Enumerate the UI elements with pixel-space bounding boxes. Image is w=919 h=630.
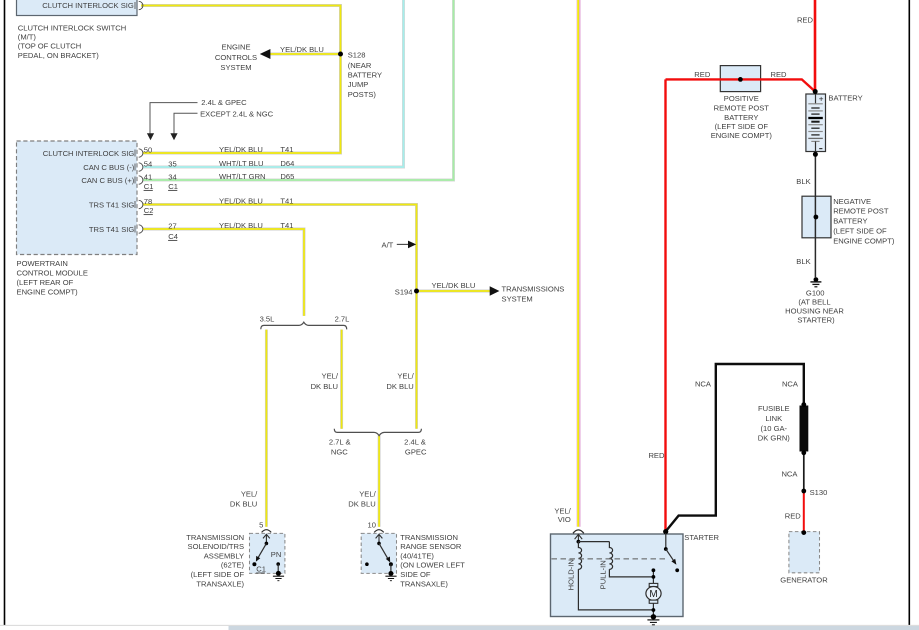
pin connector arc PCM pin 50 <box>135 149 143 157</box>
svg-text:ENGINE COMPT): ENGINE COMPT) <box>17 288 79 297</box>
G100 ground symbol <box>810 277 821 287</box>
svg-text:STARTER): STARTER) <box>797 316 835 325</box>
label YEL/VIO <box>554 506 571 523</box>
PCM pin numbers column 1 <box>144 145 152 206</box>
wire YEL/DK BLU PCM pin 78 to S194 down to brace <box>143 205 417 429</box>
frame right border line <box>908 0 910 625</box>
svg-text:C2: C2 <box>144 206 154 215</box>
starter motor branch stub <box>652 570 654 583</box>
svg-text:78: 78 <box>144 197 152 206</box>
svg-text:M: M <box>649 589 657 600</box>
hold-in coil <box>578 542 581 570</box>
svg-text:CAN C BUS (-): CAN C BUS (-) <box>83 163 135 172</box>
svg-text:TRS T41 SIG: TRS T41 SIG <box>89 225 135 234</box>
svg-text:(LEFT SIDE OF: (LEFT SIDE OF <box>715 122 769 131</box>
caption transmission range sensor <box>400 533 465 589</box>
trans solenoid entry connector arc <box>262 530 272 533</box>
svg-text:(TOP OF CLUTCH: (TOP OF CLUTCH <box>18 42 81 51</box>
caption G100 <box>785 288 844 324</box>
svg-text:(M/T): (M/T) <box>18 33 37 42</box>
svg-text:STARTER: STARTER <box>684 533 719 542</box>
brace 2.7L&NGC / 2.4L&GPEC merge <box>334 429 421 436</box>
svg-text:ENGINE COMPT): ENGINE COMPT) <box>833 236 895 245</box>
trans solenoid wiper with arrowhead <box>256 543 267 561</box>
svg-text:T41: T41 <box>280 221 293 230</box>
svg-text:T41: T41 <box>280 197 293 206</box>
wire YEL/VIO down to starter <box>577 0 580 527</box>
wire PN contact to ground <box>277 564 279 573</box>
svg-text:POWERTRAIN: POWERTRAIN <box>17 259 68 268</box>
svg-text:LINK: LINK <box>765 414 782 423</box>
wire RED top to battery <box>814 0 817 91</box>
svg-text:CONTROLS: CONTROLS <box>215 53 257 62</box>
svg-text:HOLD-IN: HOLD-IN <box>566 559 575 590</box>
svg-text:YEL/DK BLU: YEL/DK BLU <box>219 197 263 206</box>
svg-text:RED: RED <box>785 512 802 521</box>
PCM pin numbers column 2 <box>168 159 176 230</box>
trans range sensor wiper end dot <box>389 562 393 566</box>
svg-text:EXCEPT 2.4L & NGC: EXCEPT 2.4L & NGC <box>200 109 274 118</box>
trans range sensor top dot <box>377 542 381 546</box>
junction dot starter battery terminal <box>663 529 668 534</box>
svg-text:54: 54 <box>144 159 152 168</box>
svg-text:CLUTCH INTERLOCK SIG: CLUTCH INTERLOCK SIG <box>42 1 134 10</box>
svg-text:(LEFT SIDE OF: (LEFT SIDE OF <box>191 570 245 579</box>
svg-text:SOLENOID/TRS: SOLENOID/TRS <box>188 542 245 551</box>
starter box <box>551 534 684 617</box>
starter hold-in node dot <box>577 540 581 544</box>
trans range sensor entry connector arc <box>374 530 384 533</box>
svg-text:DK GRN): DK GRN) <box>758 434 791 443</box>
svg-text:CONTROL MODULE: CONTROL MODULE <box>17 269 88 278</box>
pin connector arc PCM pin 27 <box>135 225 143 233</box>
PCM pin name labels <box>43 149 135 234</box>
starter entry connector arc <box>573 530 584 533</box>
starter switch wiper with arrowhead <box>666 549 677 565</box>
trans range sensor left contact dot <box>365 562 369 566</box>
svg-text:G100: G100 <box>806 288 825 297</box>
svg-text:3.5L: 3.5L <box>260 315 275 324</box>
svg-text:2.4L & GPEC: 2.4L & GPEC <box>201 98 247 107</box>
trans solenoid wiper end dot <box>252 562 256 566</box>
svg-text:YEL/: YEL/ <box>241 490 258 499</box>
trans solenoid entry arrow up <box>263 534 270 543</box>
wire YEL/DK BLU S194 branch to transmissions system <box>417 290 491 293</box>
pin connector arc PCM pin 54 <box>135 163 143 171</box>
battery internal plates and terminals <box>808 94 824 152</box>
wire YEL/DK BLU PCM pin 27 down to 3.5L/2.7L brace <box>143 229 304 316</box>
svg-text:41: 41 <box>144 172 152 181</box>
svg-text:TRANSAXLE): TRANSAXLE) <box>196 579 244 588</box>
svg-text:2.7L &: 2.7L & <box>329 437 351 446</box>
svg-text:WHT/LT GRN: WHT/LT GRN <box>219 172 266 181</box>
starter case dashed line <box>552 558 668 560</box>
svg-text:ASSEMBLY: ASSEMBLY <box>204 551 244 560</box>
svg-text:+: + <box>819 94 824 103</box>
transmission range sensor box <box>361 533 396 573</box>
label YEL/DK BLU left drop <box>311 371 339 391</box>
connector label C2 <box>144 206 154 215</box>
svg-text:5: 5 <box>259 521 263 530</box>
svg-text:S130: S130 <box>810 488 828 497</box>
frame left border line <box>4 0 6 625</box>
svg-text:SYSTEM: SYSTEM <box>220 63 251 72</box>
svg-text:VIO: VIO <box>558 515 571 524</box>
svg-text:NCA: NCA <box>781 469 798 478</box>
svg-text:POSITIVE: POSITIVE <box>724 94 759 103</box>
wire YEL/DK BLU clutch switch to S128 to PCM pin 50 <box>141 6 341 154</box>
svg-text:NEGATIVE: NEGATIVE <box>833 197 871 206</box>
svg-text:2.4L &: 2.4L & <box>404 437 426 446</box>
caption positive remote post battery <box>711 94 773 140</box>
svg-text:YEL/: YEL/ <box>359 490 376 499</box>
wire YEL/DK BLU S128 branch to engine controls system <box>270 53 341 56</box>
svg-text:TRANSMISSIONS: TRANSMISSIONS <box>502 284 565 293</box>
trans range sensor wiper with arrowhead <box>379 543 390 562</box>
svg-text:D64: D64 <box>280 159 294 168</box>
wire motor to starter ground <box>652 603 654 617</box>
svg-text:2.7L: 2.7L <box>335 315 350 324</box>
svg-text:YEL/: YEL/ <box>322 371 339 380</box>
svg-text:RANGE SENSOR: RANGE SENSOR <box>400 542 462 551</box>
svg-text:C1: C1 <box>144 182 154 191</box>
brace 3.5L / 2.7L split <box>261 322 347 329</box>
junction dot battery positive <box>813 89 818 94</box>
svg-text:RED: RED <box>648 451 665 460</box>
svg-text:HOUSING NEAR: HOUSING NEAR <box>785 307 844 316</box>
svg-text:CLUTCH INTERLOCK SIG: CLUTCH INTERLOCK SIG <box>43 149 135 158</box>
wire color labels PCM rows <box>219 145 266 230</box>
svg-text:C1: C1 <box>256 565 266 574</box>
powertrain control module box (PCM) <box>17 141 138 255</box>
label YEL/DK BLU right drop <box>386 371 414 391</box>
svg-text:ENGINE: ENGINE <box>221 42 250 51</box>
label YEL/DK BLU above solenoid <box>230 490 258 509</box>
starter entry arrow up <box>575 534 583 542</box>
svg-text:(LEFT REAR OF: (LEFT REAR OF <box>17 278 74 287</box>
svg-text:DK BLU: DK BLU <box>386 382 413 391</box>
circuit number labels PCM rows <box>280 145 294 230</box>
svg-text:YEL/DK BLU: YEL/DK BLU <box>432 281 476 290</box>
svg-text:JUMP: JUMP <box>348 80 369 89</box>
pin connector arc PCM pin 41 <box>135 176 143 184</box>
caption clutch interlock switch <box>18 23 126 60</box>
label S128 (near battery jump posts) <box>348 50 382 99</box>
svg-text:TRANSAXLE): TRANSAXLE) <box>400 579 448 588</box>
wire YEL/DK BLU 3.5L drop to transmission solenoid <box>265 330 268 527</box>
caption powertrain control module <box>17 259 88 297</box>
svg-text:S128: S128 <box>348 50 366 59</box>
svg-text:GPEC: GPEC <box>405 447 427 456</box>
label C1 solenoid <box>256 565 266 574</box>
scrollbar track <box>0 624 919 626</box>
wire WHT/LT BLU CAN C bus (-) <box>143 0 404 167</box>
starter motor branch upper dot <box>652 568 656 572</box>
svg-text:TRANSMISSION: TRANSMISSION <box>186 533 244 542</box>
wire pull-in coil to motor top node <box>609 569 651 577</box>
svg-text:PEDAL, ON BRACKET): PEDAL, ON BRACKET) <box>18 51 99 60</box>
svg-text:YEL/: YEL/ <box>397 371 414 380</box>
wire RED S130 to generator <box>803 491 805 532</box>
svg-text:REMOTE POST: REMOTE POST <box>833 207 889 216</box>
connector label C4 <box>168 232 178 241</box>
negative remote post battery box <box>802 196 831 238</box>
trans solenoid top dot <box>265 542 269 546</box>
svg-text:YEL/DK BLU: YEL/DK BLU <box>280 45 324 54</box>
annotation line 2.4L & GPEC <box>147 103 198 141</box>
node S194 <box>414 289 419 294</box>
arrowhead to engine controls system <box>260 49 271 59</box>
svg-text:POSTS): POSTS) <box>348 90 377 99</box>
svg-text:SYSTEM: SYSTEM <box>502 294 533 303</box>
starter motor branch lower dot <box>652 575 656 579</box>
transmission solenoid/TRS assembly box <box>250 533 285 573</box>
junction dot generator terminal <box>801 530 806 535</box>
svg-text:GENERATOR: GENERATOR <box>780 576 828 585</box>
svg-text:BATTERY: BATTERY <box>828 93 862 102</box>
svg-text:RED: RED <box>694 70 711 79</box>
fusible link (10 GA- DK GRN) <box>800 402 809 455</box>
starter switch pivot dot <box>664 547 668 551</box>
svg-text:(40/41TE): (40/41TE) <box>400 551 434 560</box>
svg-text:TRANSMISSION: TRANSMISSION <box>400 533 458 542</box>
label transmissions system <box>502 284 565 303</box>
svg-text:35: 35 <box>168 159 176 168</box>
caption transmission solenoid/TRS assembly <box>186 533 244 589</box>
caption negative remote post battery <box>833 197 895 246</box>
arrowhead to transmissions system <box>490 286 500 295</box>
svg-text:BATTERY: BATTERY <box>833 217 867 226</box>
svg-text:YEL/DK BLU: YEL/DK BLU <box>219 145 263 154</box>
junction dot battery negative <box>813 152 818 157</box>
svg-text:BATTERY: BATTERY <box>724 113 758 122</box>
trans solenoid ground symbol <box>273 571 284 581</box>
svg-text:D65: D65 <box>280 172 294 181</box>
svg-text:BATTERY: BATTERY <box>348 71 382 80</box>
starter switch lead <box>665 533 667 549</box>
wire RED positive post run to battery <box>666 79 816 91</box>
svg-text:(NEAR: (NEAR <box>348 61 372 70</box>
svg-text:YEL/DK BLU: YEL/DK BLU <box>219 221 263 230</box>
svg-text:T41: T41 <box>280 145 293 154</box>
svg-text:50: 50 <box>144 145 152 154</box>
svg-text:NGC: NGC <box>331 447 348 456</box>
trans solenoid PN contact dot <box>276 562 280 566</box>
svg-text:BLK: BLK <box>796 257 810 266</box>
annotation line EXCEPT 2.4L & NGC <box>170 113 197 140</box>
junction dot negative remote post <box>814 215 819 220</box>
label engine controls system <box>215 42 257 72</box>
svg-text:C1: C1 <box>168 182 178 191</box>
svg-text:WHT/LT BLU: WHT/LT BLU <box>219 159 263 168</box>
svg-text:(ON LOWER LEFT: (ON LOWER LEFT <box>400 561 465 570</box>
wire YEL/DK BLU 2.7L drop to merge brace <box>340 330 343 429</box>
wire WHT/LT GRN CAN C bus (+) <box>143 0 454 180</box>
node S130 <box>801 489 806 494</box>
wire NCA starter to fusible link <box>666 364 804 531</box>
wire BLK battery to G100 ground <box>814 154 816 277</box>
svg-text:FUSIBLE: FUSIBLE <box>758 404 790 413</box>
clutch interlock switch box S1 <box>17 0 138 16</box>
trans range sensor entry arrow up <box>376 534 383 543</box>
svg-text:BLK: BLK <box>796 177 810 186</box>
svg-text:27: 27 <box>168 221 176 230</box>
svg-text:34: 34 <box>168 172 176 181</box>
starter ground symbol <box>647 614 659 625</box>
junction dot positive remote post <box>738 77 743 82</box>
pull-in coil <box>609 542 612 570</box>
battery box <box>806 94 826 152</box>
svg-text:NCA: NCA <box>782 379 799 388</box>
svg-text:CAN C BUS (+): CAN C BUS (+) <box>81 176 134 185</box>
wire range sensor contact to ground <box>390 564 392 573</box>
generator box <box>789 532 820 573</box>
wire YEL/DK BLU merged drop to transmission range sensor <box>378 435 381 527</box>
svg-text:PN: PN <box>271 550 282 559</box>
svg-text:SIDE OF: SIDE OF <box>400 570 431 579</box>
caption fusible link <box>758 404 791 442</box>
wire hold-in coil to motor bottom rail <box>578 569 653 610</box>
svg-text:(LEFT SIDE OF: (LEFT SIDE OF <box>833 227 887 236</box>
svg-text:A/T: A/T <box>382 241 394 250</box>
starter motor M1 <box>646 583 661 603</box>
svg-text:(10 GA-: (10 GA- <box>761 424 788 433</box>
wire hold-in to pull-in link <box>578 541 609 543</box>
svg-text:RED: RED <box>771 70 788 79</box>
svg-text:10: 10 <box>368 521 376 530</box>
svg-text:(62TE): (62TE) <box>221 561 245 570</box>
positive remote post battery box <box>720 66 760 92</box>
svg-text:DK BLU: DK BLU <box>311 382 338 391</box>
wire NCA fusible link to S130 <box>803 453 805 491</box>
node S128 <box>338 52 343 57</box>
svg-text:REMOTE POST: REMOTE POST <box>714 104 770 113</box>
svg-text:S194: S194 <box>395 287 413 296</box>
wire RED long drop to starter <box>664 79 666 531</box>
trans range sensor ground symbol <box>385 571 396 581</box>
svg-text:NCA: NCA <box>695 379 712 388</box>
scrollbar thumb <box>229 626 919 630</box>
pin connector arc clutch switch <box>139 1 143 9</box>
svg-text:DK BLU: DK BLU <box>348 499 375 508</box>
starter switch contact dot <box>675 568 679 572</box>
svg-text:C4: C4 <box>168 232 178 241</box>
svg-text:(AT BELL: (AT BELL <box>798 297 830 306</box>
label 2.7L & NGC <box>329 437 351 456</box>
A/T arrow <box>397 241 416 249</box>
svg-text:TRS T41 SIG: TRS T41 SIG <box>89 200 135 209</box>
label YEL/DK BLU above range sensor <box>348 490 376 509</box>
svg-text:PULL-IN: PULL-IN <box>598 560 607 589</box>
svg-text:RED: RED <box>797 15 814 24</box>
svg-text:CLUTCH INTERLOCK SWITCH: CLUTCH INTERLOCK SWITCH <box>18 23 126 32</box>
starter motor bottom junction dot <box>652 608 656 612</box>
svg-text:ENGINE COMPT): ENGINE COMPT) <box>711 131 773 140</box>
svg-text:DK BLU: DK BLU <box>230 499 257 508</box>
connector label C1 C1 <box>144 182 178 191</box>
pin connector arc PCM pin 78 <box>135 200 143 208</box>
label 2.4L & GPEC merge <box>404 437 427 456</box>
